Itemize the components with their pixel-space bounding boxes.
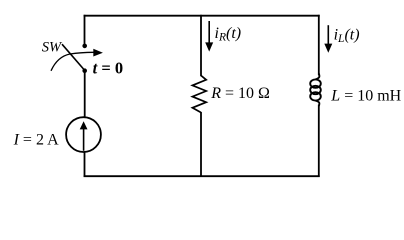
svg-text:R = 10 Ω: R = 10 Ω <box>210 85 270 102</box>
wire: left branch upper segment (top rail to switch top terminal) <box>84 15 86 45</box>
current arrow iR: shaft <box>208 21 210 44</box>
current source I: internal arrow shaft <box>83 129 85 151</box>
wire: right branch upper segment (top rail to inductor) <box>318 15 320 75</box>
svg-text:L = 10 mH: L = 10 mH <box>330 87 401 104</box>
current source I: internal arrowhead (pointing up) <box>80 121 88 129</box>
current arrow iR: arrowhead (pointing down) <box>205 42 213 51</box>
current source I (circle) <box>66 117 101 152</box>
wire: left branch lower segment (source to bottom rail) <box>84 152 86 178</box>
svg-text:t = 0: t = 0 <box>93 58 124 77</box>
svg-text:iR(t): iR(t) <box>215 25 242 44</box>
switch SW: closing-motion arrowhead <box>93 49 103 57</box>
svg-text:iL(t): iL(t) <box>334 26 360 45</box>
wire: left branch middle segment (switch bottom terminal to source) <box>84 71 86 118</box>
switch SW: closing-motion arc <box>51 52 94 71</box>
wire: middle branch upper segment (top rail to resistor) <box>200 15 202 76</box>
wire: middle branch lower segment (resistor to bottom rail) <box>200 112 202 177</box>
switch SW: blade (open switch arm) <box>62 44 85 70</box>
wire: top rail <box>84 15 320 17</box>
svg-text:I = 2 A: I = 2 A <box>13 132 59 149</box>
switch SW: top terminal node (junction dot) <box>82 44 87 49</box>
wire: right branch lower segment (inductor to bottom rail) <box>318 105 320 177</box>
svg-text:SW: SW <box>42 39 63 55</box>
current arrow iL: shaft <box>327 25 329 44</box>
resistor R (zigzag) <box>192 76 206 113</box>
switch SW: bottom terminal node (junction dot) <box>82 68 87 73</box>
wire: bottom rail <box>84 175 320 177</box>
current arrow iL: arrowhead (pointing down) <box>324 44 332 53</box>
inductor L (coil of three loops) <box>310 74 321 107</box>
